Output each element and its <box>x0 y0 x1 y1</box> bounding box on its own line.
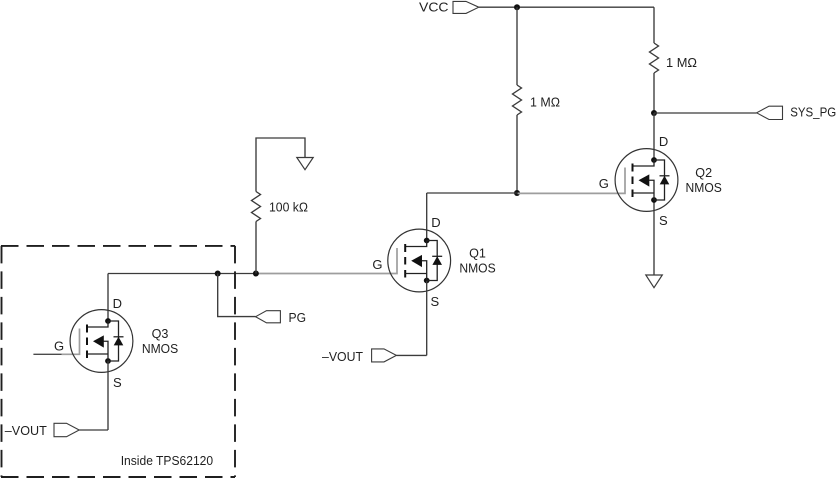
Q3 body-source connect <box>104 341 109 361</box>
Q3 source dot <box>105 358 111 364</box>
Q2 channel bar bottom <box>632 190 634 198</box>
Q2 body arrow <box>639 174 650 186</box>
Q2 diode cathode bar <box>660 175 670 177</box>
Q2 channel bar mid <box>632 177 634 185</box>
svg-text:–VOUT: –VOUT <box>322 349 363 364</box>
svg-text:G: G <box>599 176 609 191</box>
Q1 body diode branch <box>427 241 438 281</box>
svg-text:D: D <box>659 134 668 149</box>
wire SYS_PG node to terminal <box>654 112 757 114</box>
Q2 source dot <box>651 197 657 203</box>
svg-text:D: D <box>113 296 122 311</box>
terminal flag -VOUT (Q1) <box>372 349 397 362</box>
wire Q1 drain lead <box>426 193 428 240</box>
dashed box Inside TPS62120 (left edge) <box>1 246 3 477</box>
svg-text:Q1: Q1 <box>469 246 486 261</box>
svg-text:NMOS: NMOS <box>686 180 723 195</box>
svg-text:NMOS: NMOS <box>142 341 179 356</box>
wire to -VOUT terminal (Q1) <box>396 354 426 356</box>
Q1 drain dot <box>424 238 430 244</box>
transistor Q3 (NMOS) <box>33 296 178 390</box>
junction dot 100k branch <box>253 271 259 277</box>
Q1 channel bar bottom <box>404 270 406 278</box>
resistor R 1M (left) <box>513 85 522 115</box>
Q3 source internal connect <box>87 353 108 355</box>
Q1 diode triangle <box>432 256 442 265</box>
junction dot PG branch <box>215 271 221 277</box>
wire Q2 source to ground <box>653 200 655 275</box>
Q1 body-source connect <box>422 261 427 281</box>
svg-text:100 kΩ: 100 kΩ <box>269 200 308 215</box>
svg-text:G: G <box>54 338 64 353</box>
wire from top rail down to R2 <box>653 7 655 43</box>
svg-text:Q2: Q2 <box>695 165 712 180</box>
wire from top rail down to R1 <box>516 7 518 85</box>
svg-text:1 MΩ: 1 MΩ <box>666 55 697 70</box>
Q3 channel bar top <box>86 325 88 333</box>
gate lead (gray) of Q3 <box>62 329 80 355</box>
Q2 drain internal connect <box>633 160 655 166</box>
svg-text:D: D <box>431 215 440 230</box>
terminal flag PG <box>256 311 281 323</box>
wire R1 bottom to gate net <box>516 115 518 193</box>
wire VCC top rail <box>479 6 654 8</box>
Q1 source dot <box>424 278 430 284</box>
ground symbol (near 100k) <box>297 158 313 170</box>
junction dot top rail x517 <box>514 4 520 10</box>
svg-text:1 MΩ: 1 MΩ <box>530 94 560 109</box>
gate stub wire of Q3 <box>33 353 61 355</box>
Q2 diode triangle <box>660 176 670 185</box>
Q1 body circle <box>388 229 451 292</box>
svg-text:S: S <box>659 213 668 228</box>
Q2 channel bar top <box>632 164 634 172</box>
svg-text:S: S <box>431 294 440 309</box>
Q2 body circle <box>615 149 678 212</box>
terminal flag VCC <box>453 1 479 13</box>
junction dot SYS_PG node <box>651 110 657 116</box>
resistor R 100k <box>252 192 261 222</box>
transistor Q1 (NMOS) <box>256 215 496 309</box>
dashed box Inside TPS62120 (top edge) <box>1 245 235 247</box>
Q3 diode cathode bar <box>114 336 124 338</box>
Q2 body-source connect <box>649 180 654 200</box>
Q3 body arrow <box>93 335 104 347</box>
dashed box Inside TPS62120 (right edge) <box>234 246 236 477</box>
svg-text:SYS_PG: SYS_PG <box>790 105 836 120</box>
Q3 body diode branch <box>108 321 119 361</box>
wire 100k bottom to gate net <box>255 222 257 274</box>
junction dot gate net x517 <box>514 190 520 196</box>
svg-text:VCC: VCC <box>419 0 449 14</box>
svg-text:Inside TPS62120: Inside TPS62120 <box>121 453 213 468</box>
wire Q3 drain lead <box>107 274 109 321</box>
Q3 body circle <box>70 310 133 373</box>
wire main gate net (left) <box>108 273 256 275</box>
svg-text:PG: PG <box>289 310 307 325</box>
Q1 channel bar top <box>404 244 406 252</box>
Q1 source internal connect <box>405 273 427 275</box>
Q2 drain dot <box>651 157 657 163</box>
wire PG branch <box>218 274 256 317</box>
wire to -VOUT terminal (Q3) <box>79 429 108 431</box>
gate lead (gray) of Q1 <box>256 248 397 274</box>
wire R2 bottom to SYS_PG node <box>653 73 655 113</box>
resistor R 1M (right) <box>650 43 659 73</box>
Q3 drain internal connect <box>87 321 108 327</box>
svg-text:–VOUT: –VOUT <box>5 423 47 438</box>
terminal flag -VOUT (Q3) <box>54 423 79 436</box>
transistor Q2 (NMOS) <box>518 134 723 228</box>
Q3 drain dot <box>105 318 111 324</box>
ground symbol (below Q2) <box>646 275 663 288</box>
terminal flag SYS_PG <box>757 106 783 119</box>
svg-text:NMOS: NMOS <box>459 261 496 276</box>
wire Q3 source down <box>107 361 109 430</box>
wire Q1 drain horizontal to junction <box>427 192 517 194</box>
Q3 channel bar mid <box>86 338 88 346</box>
gate lead (gray) of Q2 <box>518 168 626 194</box>
svg-text:G: G <box>372 257 382 272</box>
Q3 channel bar bottom <box>86 351 88 359</box>
Q3 diode triangle <box>114 337 124 346</box>
wire Q2 drain lead <box>653 113 655 160</box>
Q1 body arrow <box>411 255 422 267</box>
wire 100k top to ground <box>256 138 305 192</box>
Q2 source internal connect <box>633 192 655 194</box>
Q1 channel bar mid <box>404 257 406 265</box>
wire Q1 source down <box>426 281 428 355</box>
dashed box Inside TPS62120 (bottom edge) <box>1 476 235 478</box>
Q1 drain internal connect <box>405 241 427 247</box>
svg-text:S: S <box>113 375 122 390</box>
Q1 diode cathode bar <box>432 255 442 257</box>
Q2 body diode branch <box>654 160 665 200</box>
svg-text:Q3: Q3 <box>152 326 169 341</box>
